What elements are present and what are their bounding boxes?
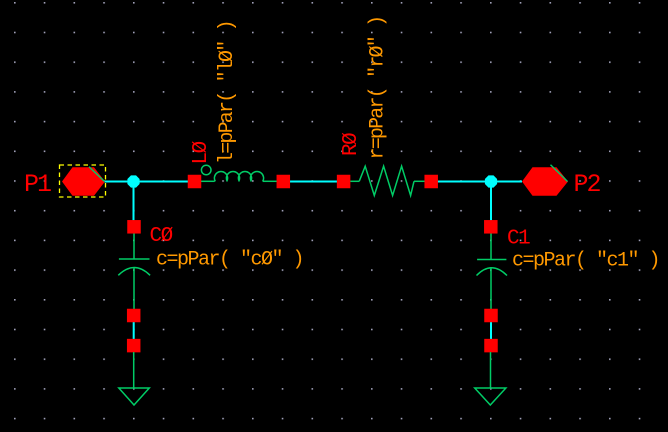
wire junction2 down to C1 <box>490 182 492 222</box>
svg-text:RØ: RØ <box>340 133 363 156</box>
pin square L0 left <box>188 175 202 189</box>
svg-text:P2: P2 <box>574 170 601 199</box>
capacitor C1 <box>477 234 508 310</box>
pin square R0 right <box>424 175 438 189</box>
pin square L0 right <box>277 175 291 189</box>
pin square C1 bottom <box>484 309 498 323</box>
inductor L0 <box>201 165 277 181</box>
pin square gnd1 upper <box>127 339 141 353</box>
pin square C1 top <box>484 220 498 234</box>
pin square R0 left <box>337 175 351 189</box>
wire between inductor and resistor <box>289 181 338 183</box>
wire junction1 down to C0 <box>133 182 135 222</box>
svg-text:C1: C1 <box>507 228 530 251</box>
wire between C0 and ground pins <box>133 320 135 341</box>
svg-text:c=pPar( "c1" ): c=pPar( "c1" ) <box>512 250 659 273</box>
svg-text:LØ: LØ <box>190 141 213 164</box>
resistor R0 <box>350 166 426 195</box>
wire between resistor and port P2 <box>437 181 522 183</box>
wire between C1 and ground pins <box>490 320 492 341</box>
svg-text:CØ: CØ <box>150 225 173 248</box>
pin square C0 top <box>127 220 141 234</box>
node junction at P2 branch <box>485 175 497 187</box>
svg-text:c=pPar( "cØ" ): c=pPar( "cØ" ) <box>156 249 303 272</box>
pin square gnd2 upper <box>484 339 498 353</box>
pin square C0 bottom <box>127 309 141 323</box>
port P1 selection box <box>60 165 106 197</box>
svg-text:l=pPar( "lØ" ): l=pPar( "lØ" ) <box>216 21 239 164</box>
svg-text:P1: P1 <box>24 170 51 199</box>
wire main horizontal segment 1 <box>104 181 189 183</box>
capacitor C0 <box>118 234 150 310</box>
port P1 hexagon <box>62 167 105 196</box>
ground gnd1 <box>119 352 150 405</box>
svg-text:r=pPar( "rØ" ): r=pPar( "rØ" ) <box>367 17 390 160</box>
node junction at P1 branch <box>127 175 139 187</box>
ground gnd2 <box>475 352 506 405</box>
port P2 hexagon <box>522 165 568 196</box>
